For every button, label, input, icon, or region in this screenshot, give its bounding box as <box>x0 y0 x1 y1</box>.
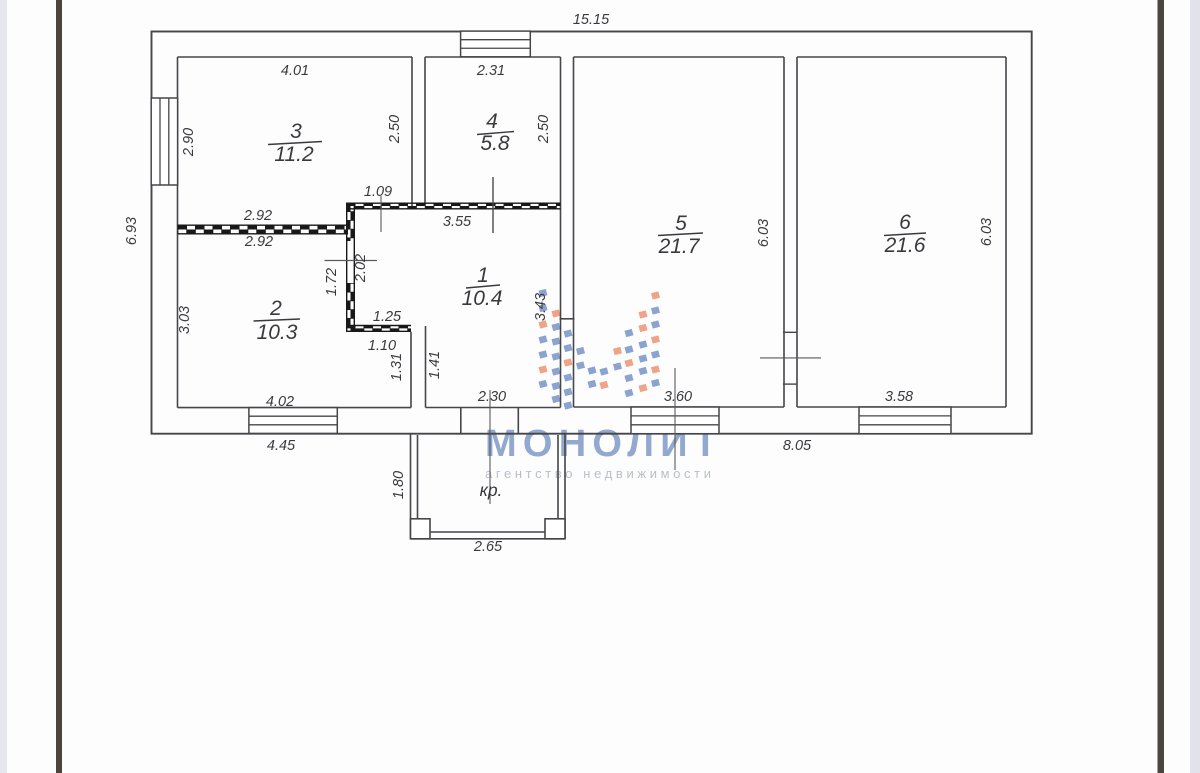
svg-text:10.3: 10.3 <box>257 321 298 344</box>
svg-text:6.03: 6.03 <box>756 219 772 247</box>
svg-text:5.8: 5.8 <box>480 132 510 155</box>
svg-text:6: 6 <box>899 211 911 234</box>
svg-text:2.92: 2.92 <box>243 208 272 224</box>
svg-text:6.93: 6.93 <box>124 217 140 245</box>
svg-text:15.15: 15.15 <box>573 12 610 28</box>
svg-text:6.03: 6.03 <box>979 218 995 246</box>
svg-text:1: 1 <box>477 264 489 287</box>
svg-text:5: 5 <box>675 212 687 235</box>
svg-text:1.09: 1.09 <box>364 184 392 200</box>
svg-text:2: 2 <box>269 297 282 320</box>
svg-text:11.2: 11.2 <box>274 143 314 166</box>
svg-text:3.58: 3.58 <box>885 389 913 405</box>
svg-text:3.55: 3.55 <box>443 214 472 230</box>
svg-text:1.25: 1.25 <box>373 309 402 325</box>
svg-text:2.31: 2.31 <box>476 63 505 79</box>
svg-text:1.41: 1.41 <box>427 351 443 379</box>
svg-text:1.10: 1.10 <box>368 338 396 354</box>
svg-text:2.92: 2.92 <box>244 234 273 250</box>
svg-text:1.72: 1.72 <box>324 268 340 296</box>
svg-text:2.65: 2.65 <box>473 539 503 555</box>
svg-text:21.7: 21.7 <box>658 235 701 258</box>
svg-text:2.50: 2.50 <box>536 115 552 144</box>
svg-text:1.80: 1.80 <box>391 471 407 499</box>
svg-text:3.43: 3.43 <box>533 293 549 321</box>
svg-text:3.60: 3.60 <box>664 389 692 405</box>
svg-text:4: 4 <box>486 110 498 133</box>
svg-text:1.31: 1.31 <box>389 353 405 381</box>
svg-text:4.45: 4.45 <box>267 438 296 454</box>
svg-text:4.01: 4.01 <box>281 63 309 79</box>
svg-text:4.02: 4.02 <box>266 394 294 410</box>
svg-text:8.05: 8.05 <box>783 438 812 454</box>
svg-text:2.02: 2.02 <box>353 254 369 283</box>
svg-text:21.6: 21.6 <box>884 234 926 257</box>
svg-text:2.90: 2.90 <box>181 128 197 157</box>
svg-text:кр.: кр. <box>480 480 503 500</box>
svg-text:2.30: 2.30 <box>477 389 506 405</box>
svg-text:10.4: 10.4 <box>462 287 503 310</box>
svg-text:3: 3 <box>290 120 302 143</box>
svg-text:2.50: 2.50 <box>387 115 403 144</box>
svg-text:3.03: 3.03 <box>177 306 193 334</box>
svg-text:агентство недвижимости: агентство недвижимости <box>485 466 711 481</box>
